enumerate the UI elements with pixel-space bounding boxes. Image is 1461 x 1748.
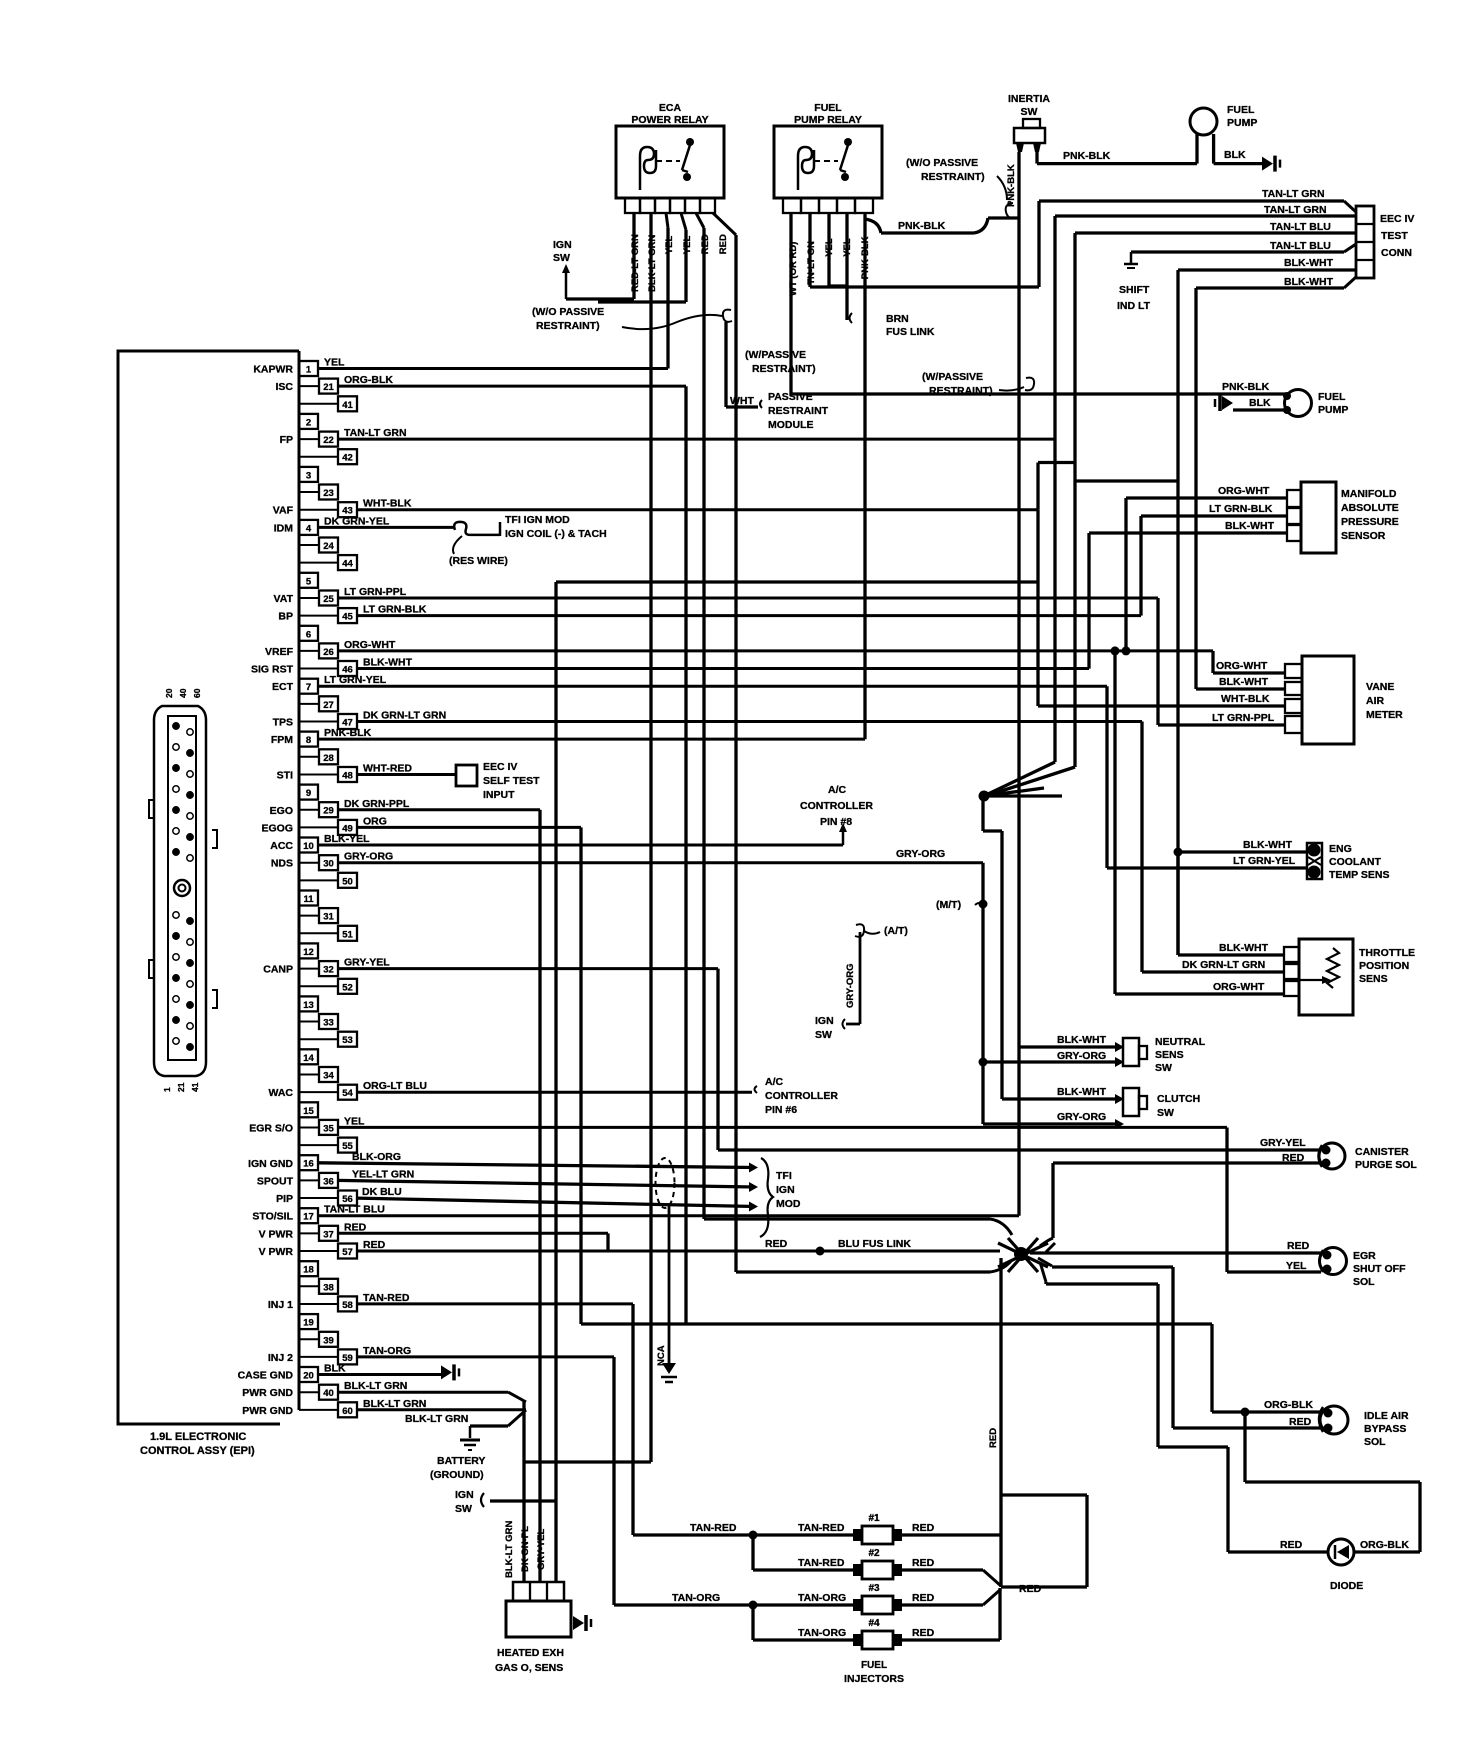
svg-text:21: 21 [176,1082,186,1092]
svg-text:VAT: VAT [274,593,294,605]
wire pin 57 RED [357,1250,1000,1253]
svg-text:INPUT: INPUT [483,789,515,801]
svg-text:VANE: VANE [1366,681,1394,693]
pin 11 [299,891,318,906]
svg-text:BLK-WHT: BLK-WHT [1219,942,1269,954]
wire pin 22 TAN-LT GRN [338,438,1055,441]
pin 29 [299,809,319,811]
svg-text:METER: METER [1366,709,1403,721]
fuel injector #2 [862,1561,893,1579]
svg-text:58: 58 [342,1300,353,1311]
pin 8 [299,732,318,747]
throttle position sensor [1299,939,1353,1015]
svg-text:50: 50 [342,876,353,887]
svg-text:13: 13 [303,1000,314,1011]
wire TAN-LT GRN to test conn 1 [1039,199,1344,202]
wire RED riser to idle air [1171,1267,1174,1428]
svg-text:RESTRAINT): RESTRAINT) [752,363,816,375]
wire pin 46 BLK-WHT [357,667,1089,670]
pin 53 [299,1038,338,1040]
pin 45 [299,615,338,617]
svg-text:1: 1 [162,1087,172,1092]
svg-text:PUMP RELAY: PUMP RELAY [794,114,862,126]
EGR shut off solenoid [1320,1248,1347,1275]
pin 18 [299,1261,318,1276]
neutral sense switch [1123,1038,1139,1066]
svg-text:PUMP: PUMP [1227,117,1257,129]
wire pin 43 WHT-BLK [357,508,1038,511]
pin 49 [299,826,338,828]
svg-text:HEATED EXH: HEATED EXH [497,1647,564,1659]
svg-text:TAN-ORG: TAN-ORG [798,1592,846,1604]
svg-text:CASE GND: CASE GND [238,1370,294,1382]
wire FP relay WT(OR RD) down to fuel pump line [789,213,792,394]
svg-text:BLK: BLK [1249,397,1271,409]
wire BLK-WHT to test conn 5 [1178,268,1356,271]
pin 3 [299,467,318,482]
svg-text:COOLANT: COOLANT [1329,856,1381,868]
wire BLK-WHT to TPS [1178,953,1284,956]
svg-text:(W/PASSIVE: (W/PASSIVE [745,349,806,361]
svg-text:ACC: ACC [270,840,293,852]
svg-text:(W/O PASSIVE: (W/O PASSIVE [906,157,978,169]
wire TN-LT GN riser to test conn 1 [1037,201,1040,287]
svg-text:TAN-RED: TAN-RED [363,1292,410,1304]
wire PNK-BLK inertia to fuel pump top [1035,152,1038,164]
svg-text:7: 7 [306,682,311,693]
svg-text:TAN-LT GRN: TAN-LT GRN [1262,188,1325,200]
wire FP relay YEL pair to BRN FUS LINK [827,213,830,286]
svg-text:24: 24 [323,541,334,552]
svg-text:30: 30 [323,859,334,870]
svg-text:40: 40 [178,688,188,698]
fuel pump (lower) [1285,390,1312,417]
svg-text:TAN-RED: TAN-RED [690,1522,737,1534]
wire BLK lower fuel pump to ground [1233,408,1287,411]
svg-text:23: 23 [323,488,334,499]
pin 13 [299,996,318,1011]
svg-text:VREF: VREF [265,646,294,658]
pin 42 [299,456,338,458]
svg-text:RED: RED [363,1239,386,1251]
svg-text:LT GRN-YEL: LT GRN-YEL [1233,855,1296,867]
ground (lower fuel pump) [1222,396,1233,410]
svg-text:38: 38 [323,1282,334,1293]
svg-text:PIN #8: PIN #8 [820,816,852,828]
svg-text:BLK-WHT: BLK-WHT [1225,520,1275,532]
svg-text:TFI IGN MOD: TFI IGN MOD [505,514,570,526]
pin 47 [299,721,338,723]
shift indicator lamp stub [1130,252,1133,264]
svg-text:ISC: ISC [275,381,293,393]
svg-text:LT GRN-YEL: LT GRN-YEL [324,674,387,686]
svg-text:POSITION: POSITION [1359,960,1409,972]
pin 16 [299,1155,318,1170]
svg-text:GRY-YEL: GRY-YEL [344,957,390,969]
svg-text:SW: SW [1157,1107,1174,1119]
svg-text:53: 53 [342,1035,353,1046]
svg-text:RESTRAINT): RESTRAINT) [536,320,600,332]
wire TAN-LT BLU riser [1073,233,1076,767]
wire pin 21 ORG-BLK [338,385,686,388]
pin 60 [299,1409,338,1411]
wire TAN-ORG trunk [614,1603,854,1606]
wire branch horizontal 582 [556,580,1038,583]
svg-text:SPOUT: SPOUT [257,1175,294,1187]
svg-text:9: 9 [306,788,311,799]
pin 23 [299,491,319,493]
svg-text:BLK-WHT: BLK-WHT [1243,839,1293,851]
svg-text:60: 60 [342,1406,353,1417]
wire BLK-WHT to neutral switch [1019,1045,1115,1048]
pin 36 [299,1179,319,1181]
TFI IGN MOD connections [749,1163,758,1173]
pin 43 [299,509,338,511]
svg-text:WHT-BLK: WHT-BLK [1221,693,1270,705]
svg-text:IDLE AIR: IDLE AIR [1364,1410,1409,1422]
hook connector W/O passive on inertia wire [1006,203,1016,218]
vane air meter [1302,656,1354,744]
svg-text:V PWR: V PWR [259,1228,294,1240]
pin 50 [299,879,338,881]
svg-text:MANIFOLD: MANIFOLD [1341,488,1397,500]
pin 52 [299,985,338,987]
svg-text:BLK-WHT: BLK-WHT [1057,1086,1107,1098]
svg-text:TAN-ORG: TAN-ORG [672,1592,720,1604]
svg-text:RED: RED [1287,1240,1310,1252]
pin 59 [299,1356,338,1358]
wire pin 45 LT GRN-BLK [357,614,1141,617]
svg-text:31: 31 [323,912,334,923]
wire BLK-WHT to test conn 6 [1196,286,1344,289]
wire RED to diode [1228,1550,1328,1553]
wire ECA pin2 BLK-LT GRN down [649,213,652,1462]
svg-text:CLUTCH: CLUTCH [1157,1093,1200,1105]
svg-text:SENS: SENS [1359,973,1388,985]
svg-text:SW: SW [455,1503,472,1515]
EEC IV TEST CONN connector [1356,206,1374,278]
pin 57 [299,1250,338,1252]
wire ECA YEL2 [681,213,686,230]
battery ground branch [508,1410,526,1426]
wire pin 59 TAN-ORG [357,1355,614,1358]
svg-text:EEC IV: EEC IV [483,761,517,773]
wire pin 8 PNK-BLK [318,738,865,741]
wire FP relay PNK-BLK down [863,213,866,739]
wire ORG-BLK riser [1210,1324,1213,1412]
wire PNK-BLK to fuel pump lower [791,392,1286,395]
pin 55 [299,1144,338,1146]
svg-text:GRY-YEL: GRY-YEL [536,1528,547,1570]
svg-text:BLK-WHT: BLK-WHT [1057,1034,1107,1046]
case ground symbol [441,1365,452,1379]
svg-text:WHT-RED: WHT-RED [363,763,412,775]
svg-text:LT GRN-BLK: LT GRN-BLK [1209,503,1273,515]
wire LT GRN-BLK to MAP [1141,514,1287,517]
svg-text:EGOG: EGOG [261,822,293,834]
svg-text:33: 33 [323,1018,334,1029]
wire pin 20 BLK [318,1373,441,1376]
wire ORG-BLK from diode [1354,1550,1420,1553]
hook connector W/PASSIVE on inertia wire [1025,378,1034,391]
svg-text:GRY-ORG: GRY-ORG [344,851,393,863]
shield ground [662,1363,676,1374]
hook connector W/PASSIVE on RED2 [723,310,732,322]
svg-text:20: 20 [303,1371,314,1382]
svg-text:(W/O PASSIVE: (W/O PASSIVE [532,306,604,318]
svg-text:BLK-LT GRN: BLK-LT GRN [344,1380,407,1392]
svg-text:A/C: A/C [828,784,847,796]
svg-text:ORG-WHT: ORG-WHT [1216,660,1268,672]
svg-text:IGN GND: IGN GND [248,1158,293,1170]
ECU box 1.9L Electronic Control Assy [118,351,299,1424]
wire ORG-WHT to VAM [1213,671,1285,674]
svg-text:PNK-BLK: PNK-BLK [898,220,946,232]
pin 39 [299,1338,319,1340]
svg-text:DK GN-PL: DK GN-PL [520,1526,531,1572]
svg-text:12: 12 [303,947,314,958]
svg-text:3: 3 [306,470,311,481]
pin 58 [299,1303,338,1305]
svg-text:SOL: SOL [1364,1436,1386,1448]
svg-text:42: 42 [342,453,353,464]
svg-text:(GROUND): (GROUND) [430,1469,484,1481]
wire RED to canister purge [1053,1161,1320,1164]
svg-text:ORG-WHT: ORG-WHT [1218,485,1270,497]
wire pin 17 TAN-LT BLU [318,1214,1019,1217]
svg-text:PNK-BLK: PNK-BLK [1063,150,1111,162]
wire step at 462 [1036,463,1039,510]
svg-text:PNK-BLK: PNK-BLK [1006,164,1017,207]
svg-text:FUEL: FUEL [1227,104,1255,116]
svg-text:CONTROLLER: CONTROLLER [800,800,873,812]
svg-text:ENG: ENG [1329,843,1352,855]
engine coolant temp sensor [1307,843,1322,879]
canister purge solenoid [1319,1143,1345,1169]
svg-text:MOD: MOD [776,1198,801,1210]
pin 38 [299,1285,319,1287]
svg-text:27: 27 [323,700,334,711]
idle air bypass solenoid [1320,1406,1348,1434]
svg-text:IND LT: IND LT [1117,300,1151,312]
svg-text:15: 15 [303,1106,314,1117]
svg-text:8: 8 [306,735,311,746]
svg-text:CONN: CONN [1381,247,1412,259]
svg-text:CONTROL ASSY (EPI): CONTROL ASSY (EPI) [140,1445,255,1457]
svg-text:VAF: VAF [273,505,294,517]
wire pwr gnd riser [522,1401,525,1582]
svg-text:STO/SIL: STO/SIL [252,1211,293,1223]
ground (top right) [1262,157,1273,171]
svg-text:DK GRN-LT GRN: DK GRN-LT GRN [363,710,446,722]
svg-text:CONTROLLER: CONTROLLER [765,1090,838,1102]
svg-text:YEL: YEL [324,357,345,369]
svg-text:ORG-WHT: ORG-WHT [1213,981,1265,993]
wire LT GRN-PPL to VAM [1158,723,1285,726]
pin 26 [299,650,319,652]
svg-text:MODULE: MODULE [768,419,814,431]
svg-text:52: 52 [342,982,353,993]
svg-text:10: 10 [303,841,314,852]
svg-text:IGN: IGN [455,1489,474,1501]
svg-text:NDS: NDS [271,858,293,870]
pin 33 [299,1021,319,1023]
svg-text:PWR GND: PWR GND [242,1405,293,1417]
svg-text:YEL: YEL [1286,1260,1307,1272]
svg-text:INJECTORS: INJECTORS [844,1673,904,1685]
svg-text:SHIFT: SHIFT [1119,284,1150,296]
svg-text:57: 57 [342,1247,353,1258]
svg-text:1.9L ELECTRONIC: 1.9L ELECTRONIC [150,1431,246,1443]
svg-text:#4: #4 [868,1618,880,1629]
svg-text:17: 17 [303,1212,314,1223]
svg-text:DK BLU: DK BLU [362,1186,402,1198]
svg-text:ORG-BLK: ORG-BLK [1360,1539,1409,1551]
pin 35 [299,1126,319,1128]
wire YEL to EGR solenoid [1227,1270,1321,1273]
svg-text:A/C: A/C [765,1076,784,1088]
svg-text:BP: BP [278,611,293,623]
svg-text:14: 14 [303,1053,314,1064]
svg-text:SW: SW [1155,1062,1172,1074]
svg-text:BRN: BRN [886,313,909,325]
wire pin 36 YEL-LT GRN [337,1180,755,1187]
svg-text:RED: RED [1019,1583,1042,1595]
svg-text:6: 6 [306,629,311,640]
svg-text:POWER RELAY: POWER RELAY [631,114,708,126]
svg-text:RED: RED [1289,1416,1312,1428]
wire BLK-WHT to coolant sensor [1178,850,1307,853]
svg-text:EGR: EGR [1353,1250,1376,1262]
svg-text:THROTTLE: THROTTLE [1359,947,1415,959]
svg-text:GRY-ORG: GRY-ORG [1057,1050,1106,1062]
wire pin 48 WHT-RED [357,773,456,776]
shield drain wire NCA to ground [668,1205,671,1372]
pin 28 [299,756,319,758]
svg-text:54: 54 [342,1088,353,1099]
injector RED returns [902,1533,1001,1536]
wire BLK-WHT riser (test conn 6) [1194,288,1197,689]
svg-text:SW: SW [553,252,570,264]
svg-text:ORG-BLK: ORG-BLK [1264,1399,1313,1411]
svg-text:SW: SW [815,1029,832,1041]
svg-text:BLK-WHT: BLK-WHT [1284,257,1334,269]
svg-text:NEUTRAL: NEUTRAL [1155,1036,1206,1048]
EEC IV self test input box [456,765,477,786]
svg-text:ORG-BLK: ORG-BLK [344,374,393,386]
svg-text:TEST: TEST [1381,230,1408,242]
pin 56 [299,1197,338,1199]
svg-text:RED: RED [1282,1152,1305,1164]
pin 4 [299,520,318,535]
svg-text:TAN-RED: TAN-RED [798,1522,845,1534]
wire RED to idle air solenoid [1173,1426,1321,1429]
wire pin 54 ORG-LT BLU [357,1091,752,1094]
pin 51 [299,932,338,934]
svg-text:KAPWR: KAPWR [253,364,293,376]
wire PNK-BLK branch relay to inertia switch [865,219,881,233]
wire pin 29 DK GRN-PPL [338,808,540,811]
svg-text:TPS: TPS [273,717,293,729]
wire BLK-WHT to VAM [1196,687,1285,690]
wire FP TAN-LT GRN riser [1053,216,1056,762]
pin 31 [299,915,319,917]
svg-text:20: 20 [164,688,174,698]
svg-text:4: 4 [306,523,312,534]
svg-text:BLK-WHT: BLK-WHT [1284,276,1334,288]
res-wire squiggle pin 4 [454,522,500,535]
wire pin 1 YEL [318,367,668,370]
wire ORG-WHT to TPS [1115,992,1284,995]
clutch switch [1123,1088,1139,1116]
svg-text:EGR S/O: EGR S/O [249,1122,293,1134]
svg-text:EGO: EGO [270,805,293,817]
pin 15 [299,1102,318,1117]
pin 54 [299,1091,338,1093]
svg-text:ORG: ORG [363,815,387,827]
svg-text:ECT: ECT [272,681,294,693]
fuel injector #4 [862,1631,893,1649]
svg-text:PNK-BLK: PNK-BLK [1222,381,1270,393]
pin 6 [299,626,318,641]
svg-text:PRESSURE: PRESSURE [1341,516,1399,528]
svg-text:DK GRN-YEL: DK GRN-YEL [324,515,390,527]
svg-text:28: 28 [323,753,334,764]
svg-text:39: 39 [323,1335,334,1346]
svg-text:BLK-LT GRN: BLK-LT GRN [504,1521,515,1578]
pin 10 [299,838,318,853]
pin 14 [299,1049,318,1064]
svg-text:YEL: YEL [344,1115,365,1127]
svg-text:22: 22 [323,435,334,446]
svg-text:29: 29 [323,806,334,817]
wire pin 60 BLK-LT GRN [357,1408,526,1411]
wire ECA YEL to pin1 KAPWR [666,213,668,228]
svg-text:RESTRAINT: RESTRAINT [768,405,829,417]
svg-text:41: 41 [342,400,353,411]
svg-text:51: 51 [342,929,353,940]
svg-text:#1: #1 [868,1513,880,1524]
svg-text:SHUT OFF: SHUT OFF [1353,1263,1406,1275]
svg-text:FUEL: FUEL [1318,391,1346,403]
svg-text:CANISTER: CANISTER [1355,1146,1409,1158]
svg-text:RED: RED [988,1428,999,1448]
svg-text:SOL: SOL [1353,1276,1375,1288]
X junction of RED power wires [998,1238,1048,1272]
svg-text:44: 44 [342,559,353,570]
svg-text:40: 40 [323,1388,334,1399]
wire RED to EGR solenoid [1030,1251,1321,1254]
ECU 60-pin connector drawing [154,706,206,1076]
svg-text:#2: #2 [868,1548,880,1559]
svg-text:IGN: IGN [553,239,572,251]
pin 25 [299,597,319,599]
svg-text:BATTERY: BATTERY [437,1455,485,1467]
svg-text:SIG RST: SIG RST [251,664,294,676]
svg-text:11: 11 [303,894,314,905]
svg-text:PURGE SOL: PURGE SOL [1355,1159,1417,1171]
svg-text:RED: RED [912,1592,935,1604]
wire pin 56 DK BLU [356,1198,755,1206]
svg-text:TAN-ORG: TAN-ORG [363,1345,411,1357]
svg-text:37: 37 [323,1229,334,1240]
svg-text:DIODE: DIODE [1330,1580,1363,1592]
svg-text:25: 25 [323,594,334,605]
svg-text:FPM: FPM [271,734,293,746]
svg-text:TAN-LT BLU: TAN-LT BLU [1270,221,1331,233]
wire pin 49 ORG [357,826,581,829]
svg-text:WHT: WHT [730,395,754,407]
